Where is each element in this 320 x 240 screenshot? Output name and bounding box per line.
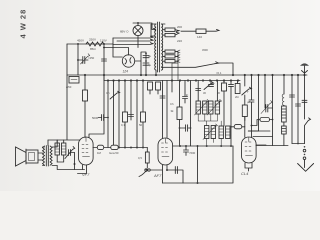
heater drop wires [172,61,178,80]
tube2 bottom loop [163,146,234,183]
resistor boxes below bus2 [148,82,153,90]
earth arrow [298,160,314,172]
tube1 pins [78,165,87,174]
svg-text:4µ: 4µ [148,54,152,58]
capacitor C top-left [78,57,88,64]
output transformer core [46,146,48,167]
svg-text:CL4: CL4 [241,171,249,176]
svg-text:200: 200 [177,25,182,29]
svg-text:≈0,1: ≈0,1 [216,71,222,75]
transformer to tube1 wires [52,140,57,166]
padding resistor pill [251,125,253,127]
connector pair [145,169,147,171]
vert x125 with resistor [124,81,126,148]
vert x237.5 resistor [237,81,239,84]
lamp top wire [133,23,156,30]
choke coil small 2 [62,143,66,155]
tone cap and arrow [65,147,75,159]
tube2 envelope [158,138,173,165]
transformer right winding [161,24,162,70]
vert x108 [107,81,109,148]
vert x251 column [249,75,254,137]
wire drop x104 [103,44,105,75]
vert x217 to IFT2 [216,81,218,102]
speaker magnet [26,150,38,163]
pickup arrow [139,169,147,177]
svg-text:AF7: AF7 [153,173,162,178]
svg-text:≈450: ≈450 [88,56,95,60]
cathode cap [167,167,183,184]
vert x162.5 to tube2 [162,81,164,139]
resistor box x85 [83,90,88,101]
lamp bottom wire [104,36,138,56]
series resistor to mains [181,30,196,32]
vert x272.5 [272,75,274,146]
osc coil top loops [283,75,285,94]
node dot bus x78 [77,43,79,45]
voltage selector lines [112,38,114,48]
vert x190.5 [190,81,192,147]
tube3 right wire [248,131,270,145]
resistor box 50k [111,145,118,149]
svg-text:1Z4: 1Z4 [123,70,129,74]
vert x119 [118,81,120,148]
IF transformer 1 [195,99,209,115]
trimmer cap [259,75,273,131]
svg-text:140: 140 [197,35,202,39]
lamp dial [133,26,143,36]
wire y131 [248,130,258,132]
vert x131 [130,81,132,121]
wire y145.5 [256,145,288,147]
IF coils lower 1 [203,124,217,140]
vert x185 cap [183,81,188,104]
connector line [292,143,305,145]
mains switch [161,62,233,75]
cap bars x162.5 [160,96,165,98]
svg-text:4 W 28: 4 W 28 [19,9,28,39]
svg-text:Ch: Ch [106,91,110,95]
IFT link wire [198,114,217,121]
svg-text:≈500: ≈500 [189,151,196,155]
svg-text:nF: nF [185,93,189,97]
node dot x104 y44 [103,43,105,45]
tube1 electrodes [82,138,90,157]
left rail down [48,75,80,140]
filter cap 2 [143,63,149,65]
svg-text:250V: 250V [89,38,96,42]
vert x104 tube1 top [89,75,104,138]
svg-text:0,1: 0,1 [121,123,125,127]
vert x198 to IFT1 [197,81,199,102]
svg-text:50: 50 [139,123,143,127]
vert x305 with switch [302,75,311,144]
vert x211 cap [209,81,214,87]
svg-text:2Ω: 2Ω [235,95,239,99]
antenna [302,64,308,75]
svg-text:1M: 1M [97,151,102,155]
vert from y146 to loop [197,146,199,183]
vert x179.5 anode resistor [179,81,181,108]
tube2 pins [150,165,167,183]
tube3 envelope [242,137,257,163]
rectifier tube [122,55,134,67]
vert x85 anode supply [84,75,86,90]
vert x244 tube3 column [242,75,252,105]
svg-text:450V: 450V [77,39,84,43]
cap bars x198 [196,89,201,91]
vert x113.5 [113,81,115,146]
cap below wire y146 [184,146,189,155]
cap bars x131 [129,115,134,117]
vert x167 to tube2 [166,81,168,139]
output transformer right winding [50,146,52,165]
wire y136.5 [253,136,273,138]
vert x172 heater [171,81,173,93]
speaker wires [38,153,43,160]
filter cap 1 [143,56,149,58]
osc coil bottom section [283,122,285,126]
tube3 pins [245,163,252,171]
svg-text:0,5: 0,5 [138,156,142,160]
tube3 electrodes [245,138,253,156]
svg-text:Gew.50: Gew.50 [109,151,119,155]
wires right of rectifier [135,52,146,75]
volume pot [146,148,148,153]
heater tap resistors [165,50,175,53]
tube1 envelope [79,137,94,165]
svg-text:4500: 4500 [202,48,208,52]
switch lever mid [204,82,214,90]
cap stub at x108 [98,115,108,121]
svg-text:Ch: Ch [170,102,174,106]
IF lower links [207,121,222,146]
transformer left winding [155,24,156,70]
transformer top wires [151,24,165,36]
primary tap resistor 220 [165,33,175,36]
wire top feed [67,43,113,45]
capacitor on x104 [102,59,107,61]
osc coil ladder [282,106,287,122]
coupling cap mid [180,125,191,131]
vert x292 cap [290,75,295,144]
output transformer left winding [43,146,45,165]
vert x231 cap [229,81,234,147]
vert x143 with resistor [142,81,144,148]
node dot x78 [77,59,79,61]
tube2 electrodes [162,139,170,157]
transformer core [156,22,160,75]
svg-text:85Ω: 85Ω [90,47,96,51]
vert x298 cap [296,75,301,144]
bus dots [84,74,306,82]
fuse box on bus [69,77,79,84]
primary tap resistor 200 [165,28,175,31]
svg-text:5000: 5000 [92,116,99,120]
resistor mains dropper [86,42,104,46]
resistor box 1M [97,145,103,149]
wire left drop [66,44,68,75]
speaker cone [16,147,27,166]
svg-text:VF7: VF7 [82,172,90,177]
IF transformer 2 [207,99,221,115]
wire y146 [173,145,233,147]
vert x224 resistor [223,81,225,84]
choke coil small 1 [55,143,59,155]
svg-text:4µ: 4µ [148,63,152,67]
svg-text:T: T [247,90,249,94]
wire drop x78 [77,44,79,75]
svg-text:µF: µF [247,100,251,104]
tube labels [82,171,249,178]
svg-text:ω50: ω50 [66,85,72,89]
grid wire y147.5 [93,147,147,149]
earth chain [304,146,306,148]
switch arrow x113 [110,91,120,99]
IF coils lower 2 [219,126,230,139]
svg-text:6BV·O: 6BV·O [120,30,129,34]
vert x137 [136,81,138,148]
svg-text:220: 220 [177,39,182,43]
second bus [104,75,240,81]
main bus [67,74,307,76]
svg-text:110V: 110V [100,39,107,43]
